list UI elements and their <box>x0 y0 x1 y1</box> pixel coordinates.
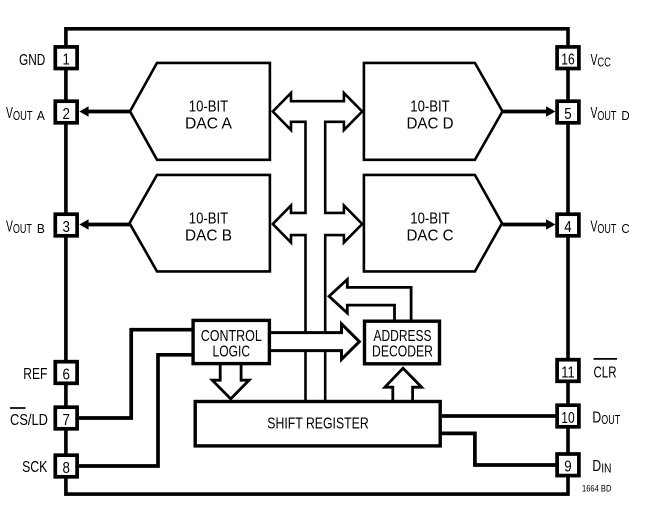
shift register box U3 <box>195 402 440 446</box>
svg-text:LOGIC: LOGIC <box>213 343 251 360</box>
pin 7 box <box>55 407 77 429</box>
wire pin 8 SCK to control logic <box>79 355 193 466</box>
svg-text:DOUT: DOUT <box>592 409 620 427</box>
hollow arrow from address decoder into bus <box>327 276 413 324</box>
pin 3 box <box>55 214 77 236</box>
wire shift register to pin 10 DOUT <box>441 414 556 418</box>
wire shift register to pin 9 DIN <box>441 433 556 465</box>
svg-text:7: 7 <box>63 412 70 429</box>
svg-text:6: 6 <box>63 366 70 383</box>
hollow arrow control logic to shift register <box>209 361 253 401</box>
pin 6 box <box>55 362 77 384</box>
svg-text:10-BIT: 10-BIT <box>410 211 450 228</box>
svg-text:VOUTD: VOUTD <box>591 105 630 123</box>
pin 5 box <box>557 101 579 123</box>
svg-text:9: 9 <box>564 459 571 476</box>
svg-text:DAC C: DAC C <box>407 227 454 244</box>
wire pin 7 CS/LD to control logic <box>79 330 193 418</box>
DAC A block <box>130 63 270 160</box>
svg-text:3: 3 <box>63 219 70 236</box>
svg-text:ADDRESS: ADDRESS <box>373 328 431 345</box>
chip boundary outline <box>66 29 568 494</box>
pin 10 box <box>557 405 579 427</box>
DAC C block <box>364 175 502 272</box>
address decoder box U2 <box>365 321 440 364</box>
hollow arrow shift register to address decoder <box>382 366 425 405</box>
svg-text:11: 11 <box>561 364 574 381</box>
wire DAC D output to pin 5 <box>503 106 555 116</box>
svg-text:10-BIT: 10-BIT <box>410 99 450 116</box>
svg-text:DAC B: DAC B <box>185 227 232 244</box>
hollow arrow control logic to address decoder <box>266 320 362 363</box>
wire DAC C output to pin 4 <box>503 219 556 229</box>
svg-text:SHIFT REGISTER: SHIFT REGISTER <box>267 416 368 433</box>
pin 11 box <box>557 360 579 382</box>
svg-text:DECODER: DECODER <box>372 343 433 360</box>
DAC D block <box>364 63 503 160</box>
svg-text:DIN: DIN <box>592 458 611 476</box>
pin 8 box <box>55 455 77 477</box>
pin 11 label CLR with overline <box>594 359 618 382</box>
pin 2 box <box>55 101 77 123</box>
svg-text:CLR: CLR <box>594 364 617 381</box>
pin 9 box <box>557 454 579 476</box>
svg-text:GND: GND <box>19 52 45 69</box>
svg-text:VOUTB: VOUTB <box>6 218 45 236</box>
svg-text:10: 10 <box>561 410 574 427</box>
svg-text:CONTROL: CONTROL <box>201 328 262 345</box>
pin 16 box <box>557 47 579 69</box>
svg-text:DAC A: DAC A <box>185 115 232 132</box>
control logic box U1 <box>193 320 269 363</box>
svg-text:10-BIT: 10-BIT <box>189 99 229 116</box>
svg-text:1664 BD: 1664 BD <box>582 484 612 494</box>
svg-text:5: 5 <box>564 106 571 123</box>
svg-text:4: 4 <box>564 219 571 236</box>
svg-text:SCK: SCK <box>22 459 48 476</box>
svg-text:16: 16 <box>561 52 574 69</box>
pin 7 label CS/LD with overline on CS <box>10 408 48 429</box>
wire DAC A output to pin 2 <box>79 106 130 116</box>
wire DAC B output to pin 3 <box>79 219 129 229</box>
svg-text:2: 2 <box>63 106 70 123</box>
svg-text:VOUTA: VOUTA <box>6 105 46 123</box>
svg-text:CS/LD: CS/LD <box>10 412 48 429</box>
pin 4 box <box>557 214 579 236</box>
svg-text:8: 8 <box>63 460 70 477</box>
data bus with two double-headed arrows <box>271 90 364 403</box>
svg-text:DAC D: DAC D <box>407 115 454 132</box>
svg-text:VCC: VCC <box>591 52 611 70</box>
svg-text:1: 1 <box>63 52 70 69</box>
svg-text:REF: REF <box>23 366 47 383</box>
svg-text:10-BIT: 10-BIT <box>189 211 229 228</box>
svg-text:VOUTC: VOUTC <box>591 218 630 236</box>
pin 1 box <box>55 47 77 69</box>
DAC B block <box>130 175 270 272</box>
